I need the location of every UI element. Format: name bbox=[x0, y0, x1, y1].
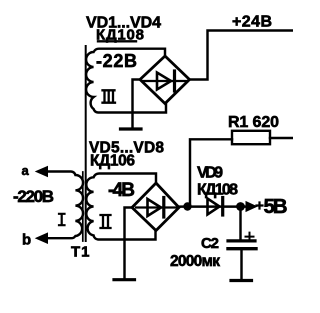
junction node (bridge2 out / R1) bbox=[183, 202, 191, 210]
diode VD9 bbox=[208, 199, 220, 215]
bridge 1 internal diode bbox=[143, 80, 187, 82]
ground (C2) bbox=[231, 279, 252, 282]
svg-text:5В: 5В bbox=[264, 195, 288, 218]
wire to resistor R1 bbox=[190, 139, 232, 204]
terminal a arrow bbox=[36, 167, 48, 177]
svg-text:-4В: -4В bbox=[108, 180, 135, 201]
label +5В bbox=[257, 203, 263, 209]
wire C2 to ground bbox=[240, 249, 242, 279]
ground (top section) bbox=[133, 80, 141, 128]
svg-text:+24В: +24В bbox=[232, 14, 272, 31]
svg-text:a: a bbox=[22, 163, 30, 178]
label II (winding II numeral) bbox=[101, 215, 111, 228]
svg-text:2000мк: 2000мк bbox=[170, 253, 220, 270]
ground (middle section) bbox=[125, 208, 133, 278]
wire node to capacitor C2 bbox=[239, 207, 241, 240]
polarity + of C2 bbox=[246, 233, 254, 241]
diode bridge VD1-VD4 diamond bbox=[140, 56, 190, 104]
svg-text:b: b bbox=[22, 232, 31, 249]
svg-text:-220В: -220В bbox=[13, 187, 54, 206]
junction node (VD9 out / C2) bbox=[236, 202, 245, 211]
svg-text:VD9: VD9 bbox=[197, 165, 223, 182]
wire bridge2 output node bbox=[179, 205, 246, 207]
capacitor C2 plates bbox=[228, 239, 255, 242]
svg-text:R1 620: R1 620 bbox=[228, 114, 279, 131]
resistor R1 body bbox=[232, 131, 270, 144]
svg-text:Т1: Т1 bbox=[71, 244, 91, 261]
transformer winding III with wire to bridge top vertex bbox=[86, 49, 166, 113]
transformer winding II with wire to bridge2 top vertex bbox=[86, 174, 156, 240]
output arrow +5В bbox=[246, 202, 257, 212]
bridge 2 internal diode bbox=[136, 206, 176, 208]
label III (winding III numeral) bbox=[103, 90, 116, 102]
label I (winding I numeral) bbox=[59, 214, 65, 225]
diode bridge VD5-VD8 diamond bbox=[132, 183, 179, 231]
svg-text:-22В: -22В bbox=[96, 51, 137, 71]
transformer T1 core bbox=[85, 46, 87, 241]
wire bridge1 + output to +24В bbox=[190, 31, 294, 80]
svg-text:С2: С2 bbox=[201, 235, 219, 252]
transformer winding I (primary) with terminal wires bbox=[47, 172, 83, 239]
terminal b arrow bbox=[36, 233, 48, 243]
svg-text:КД106: КД106 bbox=[90, 153, 135, 170]
wire R1 right bbox=[270, 137, 293, 139]
svg-text:КД108: КД108 bbox=[197, 182, 238, 199]
